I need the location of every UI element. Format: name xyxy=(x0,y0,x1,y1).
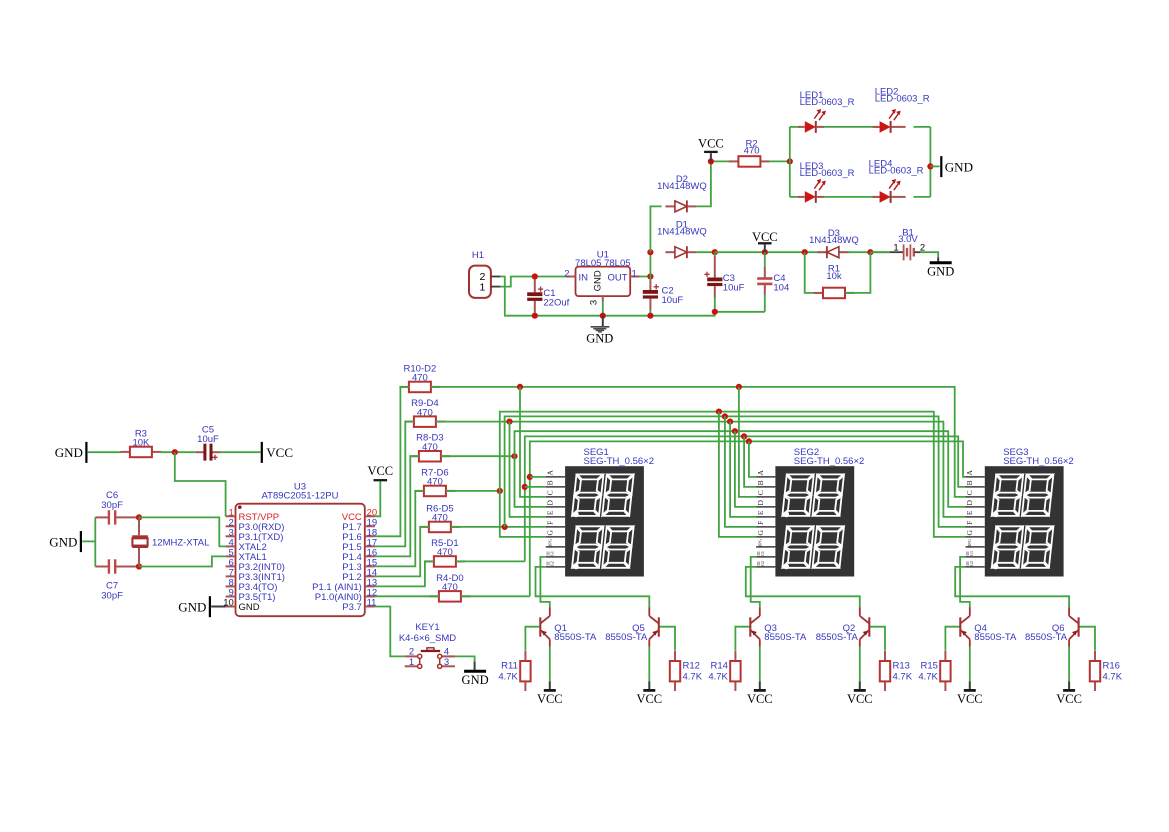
wire net G seg2 drop xyxy=(719,412,756,537)
power VCC under Q4 xyxy=(957,690,983,706)
LED LED1 xyxy=(798,90,855,133)
junction net A seg2 xyxy=(746,438,752,444)
svg-text:OUT: OUT xyxy=(607,273,627,284)
svg-text:E: E xyxy=(756,510,765,515)
wire R3 to C5 xyxy=(160,451,196,453)
svg-text:R13: R13 xyxy=(893,661,910,672)
svg-text:A: A xyxy=(756,470,765,476)
svg-text:4.7K: 4.7K xyxy=(683,672,703,683)
svg-text:1N4148WQ: 1N4148WQ xyxy=(657,181,707,192)
svg-text:LED-0603_R: LED-0603_R xyxy=(800,168,855,179)
wire led2 to right branch xyxy=(914,126,931,128)
svg-text:R16: R16 xyxy=(1103,661,1120,672)
LED LED4 xyxy=(869,159,924,203)
wire net G seg1 drop xyxy=(500,491,546,537)
7-seg display SEG2 xyxy=(756,447,865,576)
svg-text:E: E xyxy=(546,510,555,515)
svg-text:VCC: VCC xyxy=(747,692,773,706)
svg-text:G2: G2 xyxy=(969,561,974,566)
svg-text:470: 470 xyxy=(427,477,443,488)
svg-text:4.7K: 4.7K xyxy=(708,672,728,683)
svg-text:GND: GND xyxy=(55,445,83,460)
junction net C seg2 xyxy=(736,384,742,390)
resistor R2 xyxy=(729,139,770,167)
wire pin11 to key xyxy=(375,607,405,657)
wire vcc to R2 xyxy=(711,160,730,162)
7-seg display SEG1 xyxy=(546,447,655,576)
power VCC pin20 xyxy=(367,464,393,480)
svg-text:8550S-TA: 8550S-TA xyxy=(816,632,859,643)
svg-text:4.7K: 4.7K xyxy=(498,672,518,683)
svg-text:G1: G1 xyxy=(550,551,555,556)
wire pin14 to R6 xyxy=(375,527,429,577)
diode D2 1N4148WQ xyxy=(657,174,707,212)
wire pin16 to R8 xyxy=(375,456,419,556)
power VCC under Q2 xyxy=(847,690,873,706)
svg-text:DPG: DPG xyxy=(967,538,972,548)
svg-text:10uF: 10uF xyxy=(723,283,745,294)
wire led1 to led2 xyxy=(823,126,882,128)
junction net D tap xyxy=(511,453,517,459)
wire base of Q3 xyxy=(735,627,750,651)
junction U1 gnd rail xyxy=(600,313,606,319)
svg-text:R14: R14 xyxy=(710,661,727,672)
wire H1 pin2 to ground rail xyxy=(500,277,764,316)
wire vcc lead xyxy=(764,245,766,253)
svg-text:VCC: VCC xyxy=(636,692,662,706)
svg-text:H1: H1 xyxy=(472,250,484,261)
svg-text:D: D xyxy=(965,500,974,506)
junction net G tap xyxy=(497,488,503,494)
svg-text:10uF: 10uF xyxy=(662,295,684,306)
wire net G lead xyxy=(446,490,500,492)
wire cap branch xyxy=(94,517,96,566)
wire R2 to LEDs xyxy=(769,160,790,162)
svg-text:3: 3 xyxy=(589,300,600,305)
svg-text:G2: G2 xyxy=(760,561,765,566)
wire R1 right xyxy=(845,252,870,293)
wire gnd to caps xyxy=(82,540,95,542)
wire base of Q5 xyxy=(659,627,675,651)
capacitor C2 xyxy=(643,277,684,316)
junction C4 vcc tap xyxy=(762,249,768,255)
resistor R11 4.7K xyxy=(498,651,530,691)
wire pin13 to R5 xyxy=(375,561,434,586)
resistor R9-D4 xyxy=(404,398,445,427)
resistor R14 4.7K xyxy=(708,651,740,691)
svg-text:GND: GND xyxy=(178,600,206,615)
junction vcc r2 node xyxy=(708,158,714,164)
wire U1 OUT to node xyxy=(640,276,651,278)
svg-text:VCC: VCC xyxy=(1056,692,1082,706)
svg-text:G: G xyxy=(546,530,555,536)
wire pin17 to R9 xyxy=(375,422,414,547)
svg-text:VCC: VCC xyxy=(537,692,563,706)
capacitor C6 xyxy=(95,490,139,525)
transistor Q2 8550S-TA xyxy=(816,607,870,689)
ground KEY1 xyxy=(462,671,489,687)
wire pin12 to R4 xyxy=(375,595,439,597)
junction net D seg2 xyxy=(732,428,738,434)
wire rst net xyxy=(175,452,226,516)
wire net F lead xyxy=(451,526,546,528)
svg-text:F: F xyxy=(756,521,765,525)
svg-text:GND: GND xyxy=(586,331,613,345)
wire led left branch xyxy=(789,127,791,197)
svg-text:F: F xyxy=(965,521,974,525)
svg-text:4: 4 xyxy=(444,647,449,658)
wire pin18 to R10 xyxy=(375,387,409,536)
wire SEG3 dig2 to Q6 xyxy=(955,567,1069,607)
junction xtal top xyxy=(136,514,142,520)
junction U1 out node xyxy=(647,273,653,279)
junction D3 left xyxy=(802,249,808,255)
svg-text:IN: IN xyxy=(579,273,589,284)
svg-text:3.0V: 3.0V xyxy=(898,234,918,245)
resistor R6-D5 xyxy=(419,503,460,532)
wire led3 to led4 xyxy=(823,196,882,198)
junction D1 anode xyxy=(647,249,653,255)
wire net B seg2 drop xyxy=(744,436,756,487)
svg-text:VCC: VCC xyxy=(367,464,393,478)
wire base of Q2 xyxy=(869,627,885,651)
svg-text:GND: GND xyxy=(945,159,973,174)
wire key to gnd xyxy=(455,656,475,661)
wire net A riser xyxy=(530,441,966,596)
wire net F bus xyxy=(505,416,966,527)
junction xtal bottom xyxy=(136,563,142,569)
capacitor C5 xyxy=(196,425,220,461)
wire led bottom row xyxy=(790,196,798,198)
op-amp U1 78L05 xyxy=(564,250,639,306)
resistor R12 4.7K xyxy=(670,651,703,691)
svg-text:470: 470 xyxy=(422,442,438,453)
svg-text:22Ouf: 22Ouf xyxy=(543,298,569,309)
wire net B riser xyxy=(525,436,966,561)
diode D1 1N4148WQ xyxy=(657,220,707,259)
svg-text:D: D xyxy=(756,500,765,506)
wire net A seg1 stub xyxy=(530,476,546,478)
svg-text:LED-0603_R: LED-0603_R xyxy=(800,97,855,108)
svg-text:1: 1 xyxy=(632,268,637,279)
svg-text:G1: G1 xyxy=(969,551,974,556)
wire pin10 gnd lead xyxy=(211,606,225,608)
wire net B seg1 stub xyxy=(525,486,546,488)
junction led branch xyxy=(787,158,793,164)
wire net F seg2 drop xyxy=(725,416,756,527)
svg-text:12MHZ-XTAL: 12MHZ-XTAL xyxy=(152,538,209,549)
resistor R16 4.7K xyxy=(1090,651,1123,691)
svg-text:8550S-TA: 8550S-TA xyxy=(605,632,648,643)
capacitor C3 xyxy=(704,252,744,312)
svg-text:G: G xyxy=(965,530,974,536)
svg-text:VCC: VCC xyxy=(957,692,983,706)
svg-text:470: 470 xyxy=(744,146,760,157)
svg-text:P3.7: P3.7 xyxy=(342,602,362,613)
svg-text:C: C xyxy=(546,490,555,495)
junction C1 top xyxy=(532,273,538,279)
wire D2 cathode riser xyxy=(696,161,711,206)
svg-text:R12: R12 xyxy=(683,661,700,672)
wire led top row xyxy=(790,126,798,128)
svg-text:470: 470 xyxy=(442,582,458,593)
svg-text:VCC: VCC xyxy=(266,445,293,460)
svg-text:DPG: DPG xyxy=(547,538,552,548)
wire net C seg2 drop xyxy=(739,387,756,497)
ground left of R3 xyxy=(55,442,87,463)
capacitor C1 xyxy=(527,277,569,316)
svg-text:A: A xyxy=(965,470,974,476)
junction rst node xyxy=(172,449,178,455)
wire led right branch xyxy=(929,127,931,197)
svg-text:G1: G1 xyxy=(760,551,765,556)
wire led4 to right branch xyxy=(914,196,931,198)
svg-text:SEG-TH_0.56×2: SEG-TH_0.56×2 xyxy=(1003,456,1073,467)
svg-text:470: 470 xyxy=(412,373,428,384)
power VCC mid xyxy=(752,230,778,244)
junction led gnd xyxy=(927,163,933,169)
crystal 12MHZ-XTAL xyxy=(132,517,209,566)
resistor R1 xyxy=(814,264,855,299)
ground under U1 xyxy=(586,316,613,346)
junction D1 cathode node xyxy=(712,249,718,255)
ground right of LEDs xyxy=(941,156,973,177)
ground pin10 xyxy=(178,596,210,617)
resistor R4-D0 xyxy=(429,573,470,602)
wire net C bus xyxy=(431,387,966,497)
wire net B lead xyxy=(456,560,525,562)
svg-text:GND: GND xyxy=(592,270,603,291)
transistor Q1 8550S-TA xyxy=(540,607,597,689)
wire net D lead xyxy=(441,455,515,457)
diode D3 1N4148WQ xyxy=(809,228,859,258)
junction net F seg2 xyxy=(722,413,728,419)
power VCC under Q5 xyxy=(636,690,662,706)
resistor R7-D6 xyxy=(414,467,455,496)
capacitor C7 xyxy=(95,559,139,601)
wire xtal1 to pin5 xyxy=(139,556,226,566)
svg-text:LED-0603_R: LED-0603_R xyxy=(869,166,924,177)
svg-text:4.7K: 4.7K xyxy=(1103,672,1123,683)
svg-text:2: 2 xyxy=(409,647,414,658)
transistor Q3 8550S-TA xyxy=(750,607,807,689)
wire net C seg1 drop xyxy=(520,387,546,497)
ground battery xyxy=(927,263,954,279)
wire vcc top lead xyxy=(710,153,712,161)
svg-text:KEY1: KEY1 xyxy=(415,622,439,633)
svg-text:C: C xyxy=(756,490,765,495)
junction net F tap xyxy=(502,524,508,530)
junction C1 bottom xyxy=(532,313,538,319)
battery B1 3.0V xyxy=(870,227,925,260)
svg-text:1N4148WQ: 1N4148WQ xyxy=(657,227,707,238)
junction C3 bottom xyxy=(712,309,718,315)
junction net E seg2 xyxy=(727,419,733,425)
wire base of Q6 xyxy=(1079,627,1095,651)
svg-text:470: 470 xyxy=(417,407,433,418)
wire D1 cathode xyxy=(696,251,714,253)
power VCC under Q1 xyxy=(537,690,563,706)
svg-text:1: 1 xyxy=(479,282,485,294)
svg-text:B: B xyxy=(756,480,765,485)
svg-text:G: G xyxy=(756,530,765,536)
LED LED2 xyxy=(873,87,930,133)
svg-text:1N4148WQ: 1N4148WQ xyxy=(809,235,859,246)
junction net B seg1 xyxy=(522,484,528,490)
wire gnd to R3 xyxy=(88,451,122,453)
wire riser to D2 xyxy=(650,206,661,252)
svg-text:8550S-TA: 8550S-TA xyxy=(554,632,597,643)
svg-text:8550S-TA: 8550S-TA xyxy=(1025,632,1068,643)
svg-text:GND: GND xyxy=(239,602,260,613)
ground crystal xyxy=(49,531,81,552)
svg-text:C: C xyxy=(965,490,974,495)
wire base of Q4 xyxy=(945,627,960,651)
svg-text:B: B xyxy=(965,480,974,485)
LED LED3 xyxy=(798,161,855,203)
wire net G bus xyxy=(500,412,966,537)
svg-text:LED-0603_R: LED-0603_R xyxy=(875,94,930,105)
wire SEG2 dig1 to Q3 xyxy=(751,557,760,607)
svg-text:R15: R15 xyxy=(920,661,937,672)
svg-text:78L05 78L05: 78L05 78L05 xyxy=(575,258,630,269)
resistor R5-D1 xyxy=(424,538,465,567)
junction net G seg2 xyxy=(716,409,722,415)
wire net E bus xyxy=(436,422,966,517)
svg-text:3: 3 xyxy=(444,657,449,668)
wire net A seg2 drop xyxy=(749,441,756,477)
svg-text:470: 470 xyxy=(432,513,448,524)
junction net E seg1 xyxy=(506,419,512,425)
junction C2 bottom xyxy=(647,313,653,319)
svg-text:30pF: 30pF xyxy=(101,591,123,602)
transistor Q5 8550S-TA xyxy=(605,607,659,689)
svg-text:470: 470 xyxy=(437,547,453,558)
wire SEG3 dig1 to Q4 xyxy=(960,557,970,607)
svg-text:8550S-TA: 8550S-TA xyxy=(974,632,1017,643)
wire pin20 vcc xyxy=(375,482,380,517)
svg-text:SEG-TH_0.56×2: SEG-TH_0.56×2 xyxy=(584,456,655,467)
wire net E seg2 drop xyxy=(730,422,756,517)
resistor R13 4.7K xyxy=(880,651,913,691)
svg-text:K4-6×6_SMD: K4-6×6_SMD xyxy=(399,633,456,644)
resistor R3 xyxy=(120,428,161,457)
svg-text:VCC: VCC xyxy=(698,137,724,151)
junction net B seg2 xyxy=(741,433,747,439)
svg-text:VCC: VCC xyxy=(847,692,873,706)
junction net C seg1 xyxy=(517,384,523,390)
wire net A lead xyxy=(461,595,530,597)
svg-text:R11: R11 xyxy=(501,661,518,672)
wire H1 pin1 to U1 IN xyxy=(500,277,566,287)
wire R1 left xyxy=(805,252,823,293)
wire output riser xyxy=(649,252,651,276)
svg-text:SEG-TH_0.56×2: SEG-TH_0.56×2 xyxy=(794,456,865,467)
connector H1 xyxy=(469,250,500,298)
wire net D seg2 drop xyxy=(735,431,756,507)
svg-text:10uF: 10uF xyxy=(197,434,219,445)
wire net D bus xyxy=(515,431,966,507)
svg-text:8550S-TA: 8550S-TA xyxy=(764,632,807,643)
switch KEY1 xyxy=(399,622,456,669)
wire net D seg1 drop xyxy=(515,456,546,507)
resistor R10-D2 xyxy=(399,363,440,392)
resistor R15 4.7K xyxy=(918,651,950,691)
svg-text:GND: GND xyxy=(462,673,489,687)
wire pin15 to R7 xyxy=(375,491,424,567)
power VCC left xyxy=(262,442,293,463)
svg-text:4.7K: 4.7K xyxy=(893,672,913,683)
wire SEG1 dig2 to Q5 xyxy=(536,567,650,607)
svg-text:104: 104 xyxy=(773,283,789,294)
transistor Q4 8550S-TA xyxy=(960,607,1017,689)
svg-text:GND: GND xyxy=(49,534,77,549)
svg-text:E: E xyxy=(965,510,974,515)
wire SEG1 dig1 to Q1 xyxy=(540,557,549,607)
svg-text:4.7K: 4.7K xyxy=(918,672,938,683)
wire xtal2 to pin4 xyxy=(139,517,226,546)
wire vcc rail top xyxy=(715,251,890,253)
svg-text:10k: 10k xyxy=(826,271,842,282)
power VCC under Q6 xyxy=(1056,690,1082,706)
svg-text:GND: GND xyxy=(927,264,954,278)
power VCC top xyxy=(698,137,724,152)
resistor R8-D3 xyxy=(409,433,450,462)
power VCC under Q3 xyxy=(747,690,773,706)
svg-text:A: A xyxy=(546,470,555,476)
wire key gnd lead xyxy=(474,662,476,670)
wire U1 GND pin to rail xyxy=(602,302,604,316)
svg-text:DPG: DPG xyxy=(758,538,763,548)
svg-text:G2: G2 xyxy=(550,561,555,566)
svg-text:30pF: 30pF xyxy=(101,500,123,511)
svg-text:10K: 10K xyxy=(132,438,150,449)
wire SEG2 dig2 to Q2 xyxy=(746,567,860,607)
capacitor C4 xyxy=(757,252,789,312)
svg-text:F: F xyxy=(546,521,555,525)
svg-text:D: D xyxy=(546,500,555,506)
junction D3 right xyxy=(867,249,873,255)
wire battery to gnd xyxy=(920,252,938,257)
wire C5 to VCC xyxy=(220,451,260,453)
svg-text:B: B xyxy=(546,480,555,485)
wire to gnd bar xyxy=(930,165,939,167)
svg-text:1: 1 xyxy=(409,657,414,668)
wire gnd lead xyxy=(937,258,939,262)
wire base of Q1 xyxy=(525,627,540,651)
svg-text:2: 2 xyxy=(564,268,569,279)
wire net E seg1 drop xyxy=(510,422,546,517)
transistor Q6 8550S-TA xyxy=(1025,607,1079,689)
svg-text:AT89C2051-12PU: AT89C2051-12PU xyxy=(262,490,339,501)
MCU U3 AT89C2051-12PU xyxy=(223,482,377,617)
junction net A seg1 xyxy=(527,474,533,480)
7-seg display SEG3 xyxy=(965,447,1073,576)
svg-text:VCC: VCC xyxy=(752,230,778,244)
